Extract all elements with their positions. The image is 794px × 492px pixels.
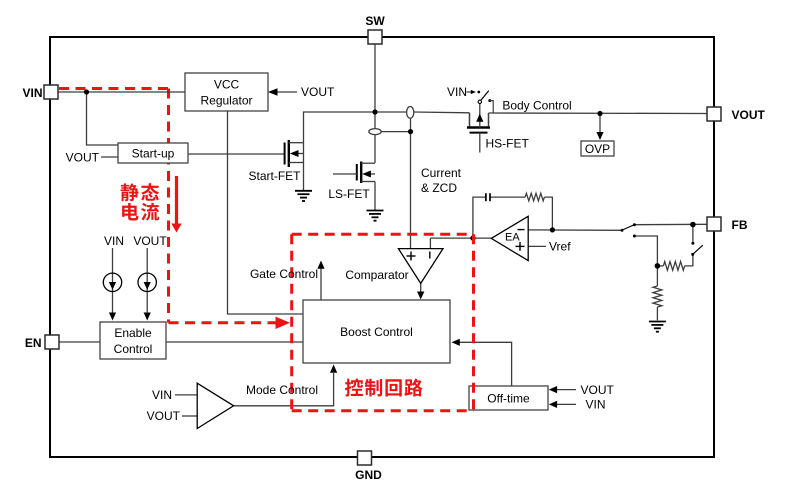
wire Start-up output to Start-FET gate <box>188 153 285 155</box>
svg-text:Current: Current <box>421 166 462 180</box>
wire EN pin to Enable Control <box>59 341 100 343</box>
control loop dashed box <box>292 234 474 410</box>
wire EA minus input to feedback switch <box>528 229 621 231</box>
switch FB select (SPDT) <box>621 223 636 237</box>
svg-text:Comparator: Comparator <box>345 268 408 282</box>
wire VCC Regulator down to Boost Control <box>228 111 304 314</box>
ground under divider <box>649 322 666 332</box>
ground under Start-FET <box>295 191 312 201</box>
op-amp mode control buffer <box>197 383 233 428</box>
svg-text:Enable: Enable <box>114 326 152 340</box>
svg-text:EN: EN <box>25 336 42 350</box>
arrowhead VOUT into Off-time <box>549 386 557 393</box>
arrowhead OVP <box>596 132 603 140</box>
node divider tap junction <box>655 263 661 269</box>
node EA output junction <box>470 236 475 241</box>
pin VOUT <box>707 107 766 122</box>
wire Off-time VIN input stub <box>556 403 576 405</box>
arrowhead Gate Control <box>317 261 324 269</box>
pin VIN <box>22 85 58 100</box>
svg-text:SW: SW <box>365 14 385 28</box>
wire VIN branch down to Start-up <box>87 92 119 145</box>
svg-text:FB: FB <box>732 218 748 232</box>
wire comparator output stem <box>420 283 422 293</box>
quiescent current dashed path from VIN <box>59 89 276 323</box>
node FB junction <box>690 222 696 228</box>
ground under LS-FET <box>367 211 384 221</box>
wire VOUT stub into Start-up <box>101 156 118 158</box>
wire EA plus input Vref stub <box>528 245 546 247</box>
wire OVP arrow stem <box>599 114 601 134</box>
svg-text:Boost Control: Boost Control <box>340 325 413 339</box>
arrowhead Off-time into Boost Control <box>452 339 460 346</box>
svg-text:VOUT: VOUT <box>66 150 100 164</box>
arrowhead comparator output into Boost Control <box>417 292 424 300</box>
svg-text:OVP: OVP <box>585 142 610 156</box>
wire Enable Control to Boost Control <box>166 341 303 343</box>
switch body-control (VIN/VOUT) <box>467 90 494 113</box>
svg-text:VIN: VIN <box>152 388 172 402</box>
svg-text:VOUT: VOUT <box>133 234 167 248</box>
svg-text:Regulator: Regulator <box>200 93 252 107</box>
red solid arrow (quiescent current direction) <box>175 176 178 225</box>
node compensation junction <box>550 227 555 232</box>
wire compensation left leg <box>473 197 485 238</box>
current source VIN (enable) <box>103 273 121 291</box>
resistor R1 compensation <box>525 193 544 201</box>
current sensor HS (vertical ellipse) <box>407 107 414 119</box>
svg-text:VCC: VCC <box>214 77 240 91</box>
capacitor C1 compensation <box>486 193 490 201</box>
wire Mode Control output to Boost Control <box>234 373 334 406</box>
wire comparator minus input corner <box>429 238 431 248</box>
wire compensation right leg <box>544 197 552 230</box>
arrowhead VIN into Off-time <box>549 401 557 408</box>
svg-text:VIN: VIN <box>104 234 124 248</box>
svg-text:VOUT: VOUT <box>301 85 335 99</box>
svg-text:Body Control: Body Control <box>502 99 571 113</box>
svg-text:VIN: VIN <box>22 86 42 100</box>
svg-text:VOUT: VOUT <box>147 409 181 423</box>
svg-text:Start-up: Start-up <box>132 146 175 160</box>
svg-text:HS-FET: HS-FET <box>486 137 530 151</box>
transistor LS-FET <box>328 162 375 202</box>
block U2 Start-up <box>118 143 188 163</box>
red arrowhead into control loop <box>276 317 291 329</box>
transistor Start-FET <box>248 140 303 183</box>
transistor HS-FET <box>467 103 530 153</box>
wire Mode Control VIN stub <box>175 394 197 396</box>
svg-text:Off-time: Off-time <box>487 391 530 405</box>
wire VIN source arrow stem (enable) <box>112 248 114 314</box>
wire EA output to comparator <box>430 237 491 239</box>
node current sense junction <box>408 129 413 134</box>
wire Gate Control arrow stem <box>320 268 322 300</box>
node body control / OVP junction <box>597 111 602 116</box>
arrowhead Mode Control into Boost Control <box>330 365 337 373</box>
op-amp U7 error amplifier EA <box>491 216 528 260</box>
pin GND <box>355 451 382 482</box>
arrowhead VOUT current source into Enable <box>144 313 151 321</box>
node SW rail junction <box>372 109 377 114</box>
wire FB pin line <box>634 223 707 225</box>
wire sense rail to HS-FET <box>413 111 469 114</box>
node VIN junction <box>84 89 89 94</box>
svg-text:VOUT: VOUT <box>732 108 766 122</box>
wire LS-FET source to ground <box>374 182 376 211</box>
current sensor LS (horizontal ellipse) <box>369 129 381 135</box>
wire LS current sense to node <box>381 131 410 133</box>
resistor R3 divider bottom <box>653 286 662 307</box>
arrowhead VOUT into VCC Regulator <box>268 88 278 96</box>
svg-text:Control: Control <box>114 342 153 356</box>
pin FB <box>707 217 748 232</box>
label control-loop (Chinese) <box>345 379 423 397</box>
block U5 Off-time <box>469 386 548 410</box>
resistor R2 divider top <box>663 262 684 271</box>
arrowhead inside VOUT current source <box>144 282 151 290</box>
IC boundary border <box>50 37 714 457</box>
svg-text:Gate Control: Gate Control <box>250 267 318 281</box>
wire VOUT into VCC Regulator <box>276 91 297 93</box>
svg-text:EA: EA <box>505 232 520 244</box>
wire divider top resistor leads <box>657 265 663 267</box>
op-amp comparator (current) <box>345 249 443 284</box>
wire divider tap to switch lower contact <box>634 236 657 266</box>
label quiescent-current (Chinese) <box>121 183 160 220</box>
pin EN <box>25 335 59 350</box>
wire Start-FET drain to switch node rail <box>304 112 407 163</box>
wire SW pin down to LS-FET <box>374 44 376 129</box>
svg-text:Start-FET: Start-FET <box>248 169 301 183</box>
svg-text:VOUT: VOUT <box>581 383 615 397</box>
arrowhead VIN current source into Enable <box>109 313 116 321</box>
wire HS-FET to VOUT pin <box>489 112 708 115</box>
svg-text:Mode Control: Mode Control <box>246 383 318 397</box>
switch trim (divider) <box>691 242 703 256</box>
wire cap to resistor <box>491 196 526 198</box>
wire current sense vertical to comparator + <box>410 118 412 248</box>
current source VOUT (enable) <box>138 273 156 291</box>
svg-text:Vref: Vref <box>549 240 571 254</box>
arrowhead inside VIN current source <box>109 282 116 290</box>
pin SW <box>365 14 385 44</box>
wire Off-time output to Boost Control <box>459 342 512 386</box>
block U1 VCC Regulator <box>185 73 268 111</box>
svg-text:& ZCD: & ZCD <box>421 181 457 195</box>
wire VIN to VCC Regulator <box>58 91 185 93</box>
wire Off-time VOUT input stub <box>556 389 576 391</box>
wire Start-FET source to ground <box>303 163 305 191</box>
block U4 Boost Control <box>303 300 450 363</box>
svg-text:VIN: VIN <box>447 85 467 99</box>
wire trim switch stub from FB node <box>692 225 694 242</box>
svg-text:LS-FET: LS-FET <box>328 187 370 201</box>
svg-text:GND: GND <box>355 468 382 482</box>
wire divider bottom resistor leads <box>656 266 658 286</box>
wire Mode Control VOUT stub <box>182 415 197 417</box>
block U3 Enable Control <box>100 322 166 359</box>
svg-text:VIN: VIN <box>586 398 606 412</box>
wire VOUT source arrow stem (enable) <box>146 248 148 314</box>
block U6 OVP <box>581 141 614 156</box>
